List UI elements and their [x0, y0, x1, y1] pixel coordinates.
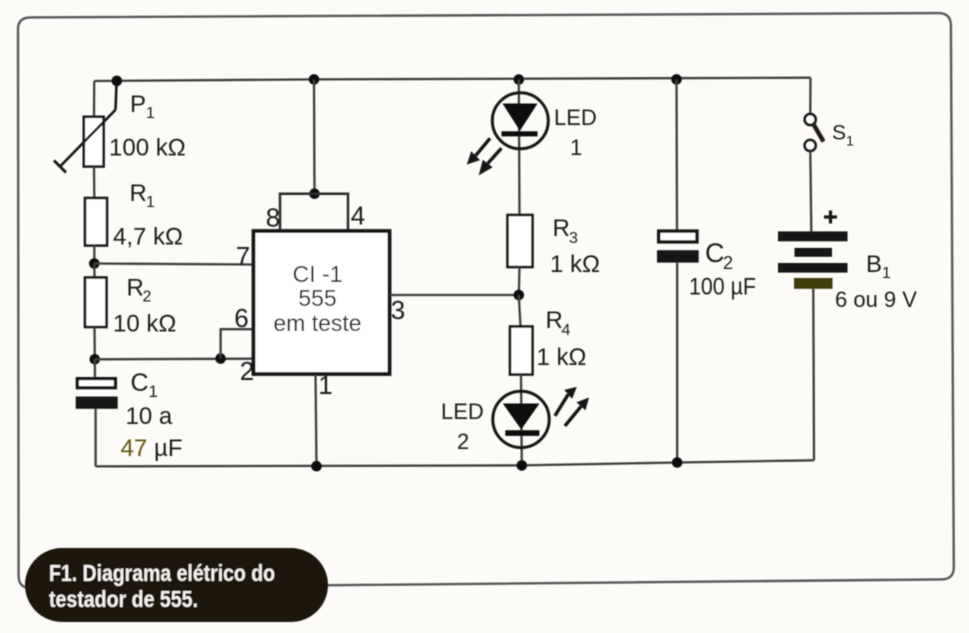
svg-text:1 kΩ: 1 kΩ	[537, 344, 587, 371]
svg-text:1: 1	[846, 133, 854, 149]
wire P1 to R1	[93, 167, 96, 199]
svg-text:2: 2	[240, 356, 254, 386]
svg-text:2: 2	[143, 289, 152, 306]
label P1	[130, 91, 155, 122]
svg-text:C: C	[131, 369, 149, 397]
node LED2 bottom rail	[517, 460, 528, 471]
node IC supply on top rail	[309, 74, 320, 85]
svg-text:100 kΩ: 100 kΩ	[109, 135, 186, 162]
label R2	[127, 275, 152, 306]
wire pin 2	[95, 358, 254, 361]
label C1	[131, 369, 158, 401]
label R1	[130, 180, 156, 211]
wire switch to battery	[810, 151, 811, 231]
node P1 wiper on top rail	[112, 76, 123, 87]
svg-text:1: 1	[318, 370, 332, 400]
svg-text:7: 7	[236, 241, 250, 271]
label C2	[705, 238, 733, 273]
label R3	[553, 215, 579, 247]
LED 1	[492, 93, 548, 149]
wire pin 6 branch	[221, 329, 254, 358]
svg-text:8: 8	[266, 203, 280, 233]
node R2/C1/pin2 junction	[90, 354, 101, 365]
svg-text:4,7 kΩ: 4,7 kΩ	[113, 224, 183, 251]
svg-text:µF: µF	[154, 435, 183, 462]
wire node to R2	[93, 264, 95, 278]
svg-text:1: 1	[146, 194, 155, 211]
switch S1	[805, 114, 824, 151]
svg-text:6: 6	[234, 303, 248, 333]
svg-text:1: 1	[882, 265, 891, 282]
svg-text:R: R	[546, 307, 563, 334]
LED2 light arrow b	[565, 398, 589, 426]
svg-text:C: C	[705, 238, 725, 268]
wire battery to bottom rail	[812, 289, 815, 461]
wire LED1/R3 chain	[518, 80, 521, 216]
node C2 top rail	[671, 74, 682, 85]
node R1/R2 junction	[89, 258, 100, 269]
resistor R2	[85, 278, 107, 328]
label R4	[546, 307, 571, 339]
node pin3/R3/R4	[514, 290, 525, 301]
svg-text:R: R	[127, 275, 144, 302]
wire C2 top	[675, 79, 678, 230]
svg-text:10 kΩ: 10 kΩ	[113, 311, 176, 338]
svg-text:1 kΩ: 1 kΩ	[550, 251, 600, 278]
node pin6 branch junction	[215, 353, 226, 364]
wire node to R4	[519, 295, 521, 327]
svg-text:P: P	[130, 91, 146, 118]
wire pins 8/4 bracket	[280, 194, 348, 232]
resistor R4	[510, 327, 533, 375]
svg-text:4: 4	[351, 201, 365, 231]
wire C2 bottom	[676, 263, 678, 463]
wire pin 7	[94, 264, 253, 265]
wire R4 to LED2 to bottom rail	[520, 375, 523, 466]
battery B1	[778, 231, 848, 288]
node pin1 bottom rail	[311, 461, 322, 472]
svg-text:S: S	[832, 122, 846, 145]
svg-text:1: 1	[570, 135, 582, 160]
svg-text:3: 3	[391, 295, 405, 325]
wire R2 to node	[93, 327, 96, 359]
label LED 1	[554, 105, 597, 160]
label 47 uF	[121, 435, 183, 462]
wire C1 to bottom rail	[94, 409, 96, 467]
svg-text:LED: LED	[554, 105, 597, 130]
capacitor C2	[657, 231, 699, 263]
svg-text:3: 3	[569, 230, 578, 247]
battery plus sign	[824, 211, 837, 224]
label B1	[866, 251, 891, 282]
svg-text:testador de 555.: testador de 555.	[49, 586, 198, 612]
svg-text:555: 555	[298, 285, 336, 311]
LED2 light arrow a	[555, 387, 577, 416]
resistor R3	[508, 215, 533, 267]
wire pin 1	[316, 375, 317, 467]
svg-text:F1. Diagrama elétrico do: F1. Diagrama elétrico do	[49, 560, 275, 586]
LED1 light arrow a	[467, 138, 490, 164]
svg-text:47: 47	[121, 435, 148, 462]
wire R3 to node	[518, 267, 521, 295]
wire top rail	[94, 78, 810, 81]
wire switch drop	[809, 78, 812, 115]
LED1 light arrow b	[479, 148, 502, 175]
wire node to C1	[94, 359, 96, 378]
figure caption pill	[25, 548, 328, 622]
svg-text:B: B	[866, 251, 882, 278]
LED 2	[493, 391, 549, 447]
svg-text:R: R	[130, 180, 147, 207]
svg-text:LED: LED	[441, 399, 484, 424]
svg-text:4: 4	[562, 322, 571, 339]
svg-text:10 a: 10 a	[126, 403, 173, 430]
label LED 2	[441, 399, 484, 454]
svg-text:R: R	[553, 215, 570, 242]
wire pin 3	[390, 294, 519, 296]
svg-text:100 µF: 100 µF	[689, 274, 756, 301]
svg-text:1: 1	[146, 105, 155, 122]
node C2 bottom rail	[672, 457, 683, 468]
svg-text:em teste: em teste	[273, 310, 361, 336]
svg-text:2: 2	[723, 253, 733, 273]
node bracket junction	[309, 188, 320, 199]
resistor R1	[85, 198, 107, 246]
wire bottom rail	[96, 460, 814, 466]
op-amp U1 : IC CI-1 555 box	[254, 231, 390, 374]
wire R1 to node	[93, 246, 95, 266]
wire IC supply drop	[313, 79, 316, 193]
node LED1 top rail	[514, 74, 525, 85]
svg-text:2: 2	[457, 429, 469, 454]
capacitor C1	[76, 379, 118, 409]
wire left drop to P1	[93, 81, 95, 118]
svg-text:6 ou 9 V: 6 ou 9 V	[835, 287, 917, 312]
potentiometer P1	[54, 82, 117, 173]
svg-text:CI -1: CI -1	[293, 261, 343, 287]
svg-text:1: 1	[149, 382, 158, 401]
label S1	[832, 122, 854, 149]
